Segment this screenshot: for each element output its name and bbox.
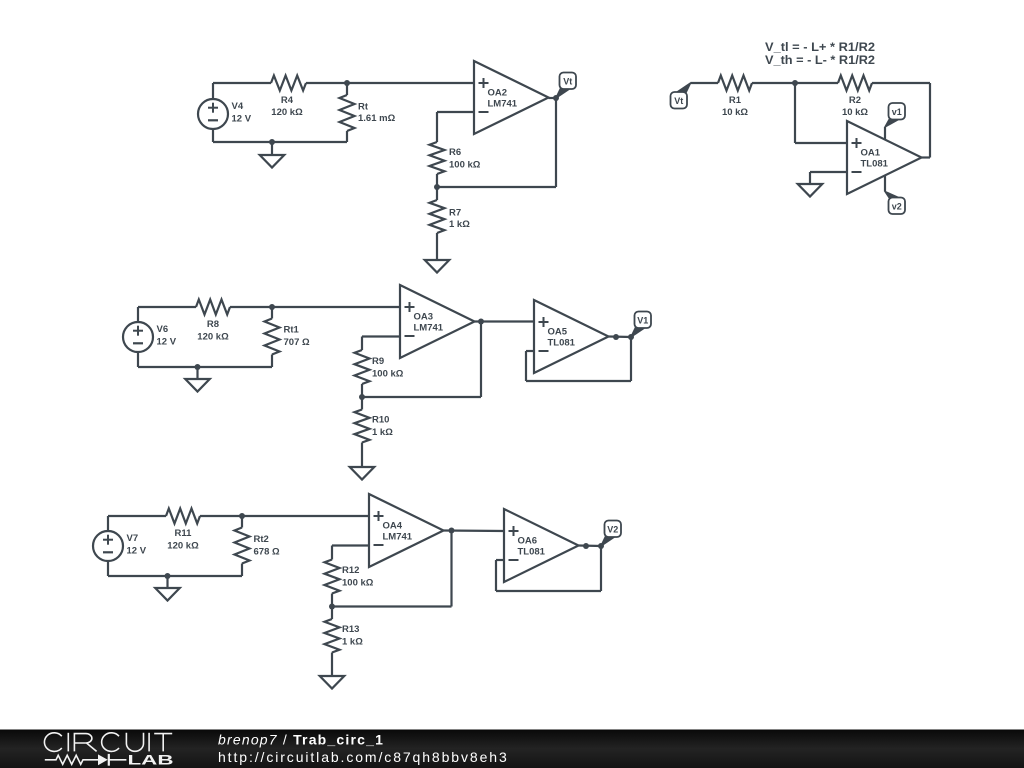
- ground: [320, 676, 345, 689]
- voltage source V7: [93, 531, 123, 561]
- svg-text:Rt: Rt: [358, 102, 369, 113]
- svg-text:TL081: TL081: [861, 158, 889, 169]
- node B junction: [792, 80, 798, 86]
- junction OA2 output: [553, 95, 559, 101]
- op-amp OA2: [474, 61, 549, 134]
- flag Vt output: [556, 88, 569, 99]
- logo resistor zigzag: [45, 755, 98, 764]
- svg-text:R2: R2: [849, 95, 861, 106]
- logo CIRCUIT lettering: [44, 733, 172, 752]
- flag V1: [631, 327, 644, 338]
- svg-text:100 kΩ: 100 kΩ: [449, 160, 481, 171]
- wire R11 to node D: [200, 515, 242, 517]
- svg-text:V7: V7: [127, 533, 139, 544]
- wire R4 to node A: [306, 82, 347, 84]
- power pin v2: [884, 175, 886, 192]
- ground: [798, 184, 823, 197]
- logo diode: [98, 754, 108, 765]
- svg-text:LAB: LAB: [128, 752, 174, 767]
- svg-text:R6: R6: [449, 147, 461, 158]
- junction ground node: [269, 139, 275, 145]
- resistor R6: [430, 142, 445, 174]
- wire OA3 output to OA5 + input: [475, 320, 535, 322]
- wire Vt to R1: [691, 82, 719, 84]
- resistor R2: [838, 76, 872, 91]
- resistor R4: [271, 76, 306, 91]
- svg-text:V_th = - L- * R1/R2: V_th = - L- * R1/R2: [765, 53, 875, 67]
- svg-text:LM741: LM741: [488, 98, 518, 109]
- wire OA5 feedback: [526, 350, 534, 352]
- wire node D to OA4 + input: [242, 515, 369, 517]
- svg-text:707 Ω: 707 Ω: [284, 337, 310, 348]
- svg-text:v1: v1: [892, 107, 902, 117]
- wire V7 bottom: [107, 560, 109, 576]
- svg-text:V6: V6: [157, 324, 169, 335]
- resistor R9: [355, 350, 370, 384]
- wire OA2 - input: [437, 111, 474, 113]
- junction OA6 output net: [598, 543, 604, 549]
- ground: [196, 367, 198, 379]
- svg-text:Rt2: Rt2: [254, 534, 269, 545]
- svg-text:Rt1: Rt1: [284, 325, 300, 336]
- wire OA4 - input: [332, 544, 369, 546]
- svg-text:R13: R13: [342, 624, 359, 635]
- svg-text:12 V: 12 V: [232, 113, 252, 124]
- resistor R10: [361, 397, 363, 410]
- svg-text:R9: R9: [372, 356, 384, 367]
- resistor R12: [325, 560, 340, 594]
- wire node C to OA3 + input: [272, 306, 400, 308]
- voltage source V6: [123, 322, 153, 352]
- svg-text:1 kΩ: 1 kΩ: [449, 219, 470, 230]
- wire OA6 feedback: [496, 559, 504, 561]
- svg-text:120 kΩ: 120 kΩ: [167, 541, 199, 552]
- wire feedback to OA3 output: [362, 396, 481, 398]
- svg-text:LM741: LM741: [383, 531, 413, 542]
- wire node B to R2: [795, 82, 838, 84]
- resistor R7: [436, 187, 438, 200]
- svg-text:http://circuitlab.com/c87qh8bb: http://circuitlab.com/c87qh8bbv8eh3: [218, 749, 509, 765]
- resistor R1: [718, 76, 752, 91]
- svg-text:R8: R8: [207, 319, 219, 330]
- resistor Rt: [346, 83, 348, 95]
- node D junction: [239, 513, 245, 519]
- op-amp OA1: [847, 121, 922, 194]
- junction ground node: [165, 573, 171, 579]
- svg-text:100 kΩ: 100 kΩ: [342, 578, 374, 589]
- svg-text:R7: R7: [449, 208, 461, 219]
- svg-text:TL081: TL081: [518, 546, 546, 557]
- wire V7 top: [108, 515, 166, 517]
- svg-text:OA5: OA5: [548, 326, 568, 337]
- wire OA6 output: [579, 544, 602, 547]
- junction ground node: [195, 364, 201, 370]
- svg-text:12 V: 12 V: [127, 545, 147, 556]
- svg-text:OA2: OA2: [488, 87, 508, 98]
- junction R9/R10: [359, 394, 365, 400]
- svg-text:10 kΩ: 10 kΩ: [842, 107, 868, 118]
- svg-text:v2: v2: [892, 201, 902, 211]
- flag v2: [885, 192, 898, 200]
- svg-text:R4: R4: [281, 95, 294, 106]
- svg-text:OA1: OA1: [861, 147, 881, 158]
- resistor R8: [196, 300, 230, 315]
- resistor R11: [166, 509, 200, 524]
- flag v1: [885, 118, 898, 127]
- footer bar: [0, 730, 1024, 768]
- svg-text:1 kΩ: 1 kΩ: [372, 427, 393, 438]
- wire V4 top-left loop: [213, 82, 271, 84]
- power pin v1: [884, 127, 886, 140]
- flag V2: [601, 536, 614, 547]
- resistor R13: [331, 607, 333, 620]
- op-amp OA5: [534, 300, 609, 373]
- voltage source V4: [198, 99, 228, 129]
- wire R8 to node C: [230, 306, 272, 308]
- ground: [350, 467, 375, 480]
- junction OA5 output pin: [613, 334, 619, 340]
- wire R1 to node B: [752, 82, 795, 84]
- svg-text:120 kΩ: 120 kΩ: [197, 332, 229, 343]
- svg-text:678 Ω: 678 Ω: [254, 547, 280, 558]
- svg-text:12 V: 12 V: [157, 336, 177, 347]
- svg-text:R10: R10: [372, 415, 389, 426]
- junction OA6 output pin: [583, 543, 589, 549]
- svg-text:R11: R11: [175, 528, 193, 539]
- wire node B to OA1 + input: [794, 83, 796, 143]
- svg-text:1 kΩ: 1 kΩ: [342, 637, 363, 648]
- op-amp OA4: [369, 494, 444, 567]
- op-amp OA6: [504, 509, 579, 582]
- svg-text:Vt: Vt: [563, 76, 572, 86]
- wire OA1 - input to ground: [810, 171, 847, 173]
- svg-text:Vt: Vt: [674, 96, 683, 106]
- ground: [425, 260, 450, 273]
- svg-text:R12: R12: [342, 565, 359, 576]
- resistor Rt1: [271, 307, 273, 319]
- svg-text:120 kΩ: 120 kΩ: [271, 107, 303, 118]
- flag Vt input: [678, 83, 691, 94]
- svg-text:V4: V4: [232, 101, 244, 112]
- svg-text:TL081: TL081: [548, 337, 576, 348]
- op-amp OA3: [400, 285, 475, 358]
- wire V6 bottom: [137, 351, 139, 367]
- svg-text:LM741: LM741: [414, 322, 444, 333]
- ground: [166, 576, 168, 588]
- junction OA4 output: [449, 528, 455, 534]
- svg-text:OA6: OA6: [518, 535, 538, 546]
- wire OA5 output: [609, 335, 632, 338]
- node C junction: [269, 304, 275, 310]
- wire V6 top: [138, 306, 196, 308]
- svg-text:OA4: OA4: [383, 520, 403, 531]
- junction OA5 output net: [628, 334, 634, 340]
- svg-text:brenop7 / Trab_circ_1: brenop7 / Trab_circ_1: [218, 732, 384, 748]
- wire feedback to OA4 output: [332, 605, 452, 607]
- resistor Rt2: [241, 516, 243, 528]
- junction R12/R13: [329, 604, 335, 610]
- wire V4 bottom: [212, 128, 214, 142]
- wire OA4 output to OA6 + input: [444, 529, 505, 532]
- svg-text:V2: V2: [607, 524, 618, 534]
- wire R2 to OA1 output: [872, 82, 930, 84]
- ground: [271, 142, 273, 155]
- svg-text:V1: V1: [637, 315, 648, 325]
- wire OA3 - input: [362, 335, 400, 337]
- svg-text:OA3: OA3: [414, 311, 434, 322]
- wire feedback to OA2 output: [437, 186, 556, 188]
- svg-text:10 kΩ: 10 kΩ: [722, 107, 748, 118]
- svg-text:100 kΩ: 100 kΩ: [372, 369, 404, 380]
- svg-text:V_tl = - L+ * R1/R2: V_tl = - L+ * R1/R2: [765, 40, 875, 54]
- wire node A to OA2 + input: [347, 82, 474, 84]
- svg-text:R1: R1: [729, 95, 742, 106]
- junction OA3 output: [478, 319, 484, 325]
- junction R6/R7: [434, 184, 440, 190]
- svg-text:1.61 mΩ: 1.61 mΩ: [358, 113, 396, 124]
- node A junction: [344, 80, 350, 86]
